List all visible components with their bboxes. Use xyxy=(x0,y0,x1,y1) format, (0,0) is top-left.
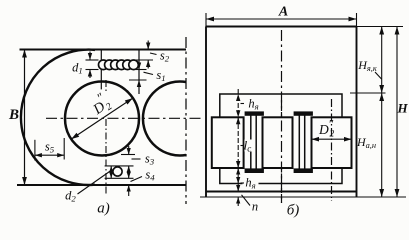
svg-text:б): б) xyxy=(287,203,300,219)
vent duct 1 top bar xyxy=(245,112,264,116)
packet 3 axis xyxy=(331,99,333,201)
label d2 xyxy=(78,171,112,195)
dimension H xyxy=(396,27,398,198)
yoke outline xyxy=(220,94,342,184)
slot wall right xyxy=(138,50,140,95)
svg-text:А: А xyxy=(278,5,288,20)
base line xyxy=(200,196,406,198)
dimension B xyxy=(24,50,26,186)
vent duct 2 web xyxy=(298,115,300,168)
split extension xyxy=(350,92,386,94)
svg-text:D: D xyxy=(318,122,329,137)
core packet 1 xyxy=(212,117,244,168)
chained dims line xyxy=(237,89,239,184)
dimension s4 xyxy=(128,170,130,179)
svg-text:а): а) xyxy=(97,201,110,217)
vent duct 2 top bar xyxy=(294,112,313,116)
dimension s3 xyxy=(121,154,135,156)
svg-text:n: n xyxy=(252,200,258,214)
dimension d1 xyxy=(86,59,99,61)
vent duct 1 web xyxy=(250,115,252,168)
dim line Hyak/Han xyxy=(381,27,383,198)
dim h_ya top xyxy=(236,94,240,101)
svg-text:″: ″ xyxy=(329,117,334,131)
outer bore arc xyxy=(21,50,95,185)
horizontal centerline xyxy=(46,117,203,119)
dimension s5 xyxy=(34,140,36,161)
pole circle 2 clipped xyxy=(143,82,186,156)
dimension D2'' section xyxy=(312,138,352,140)
slot vertical axis xyxy=(105,80,107,91)
vent duct 2 bottom bar xyxy=(294,169,313,173)
slot wall left xyxy=(100,50,102,90)
dimension d2 arrows xyxy=(110,166,112,178)
H top extension xyxy=(357,26,404,28)
svg-text:В: В xyxy=(8,107,19,123)
main axis over packet xyxy=(281,100,283,203)
dimension A xyxy=(205,13,207,27)
bottom boundary line xyxy=(17,184,186,186)
coil turns d1 xyxy=(99,60,109,70)
dimension s1 xyxy=(138,62,140,70)
dimension D2'' xyxy=(71,98,133,139)
main axis xyxy=(281,30,283,203)
dim n xyxy=(237,184,239,192)
outer frame xyxy=(205,27,207,198)
wire circle d2 xyxy=(113,167,122,176)
dim h_ya bottom xyxy=(236,168,240,175)
pole circle D2'' xyxy=(65,82,139,156)
dimension s2 xyxy=(147,41,149,50)
right symmetry axis xyxy=(185,37,187,204)
vent duct 1 bottom bar xyxy=(245,169,264,173)
label H ya,k xyxy=(375,72,382,79)
svg-text:2: 2 xyxy=(330,130,335,140)
top boundary line xyxy=(20,48,187,50)
core packet 2 xyxy=(263,117,293,168)
core packet 3 xyxy=(312,117,352,168)
lower slot strip xyxy=(105,165,134,167)
svg-text:Н: Н xyxy=(396,101,408,116)
dim l_c xyxy=(236,117,240,124)
